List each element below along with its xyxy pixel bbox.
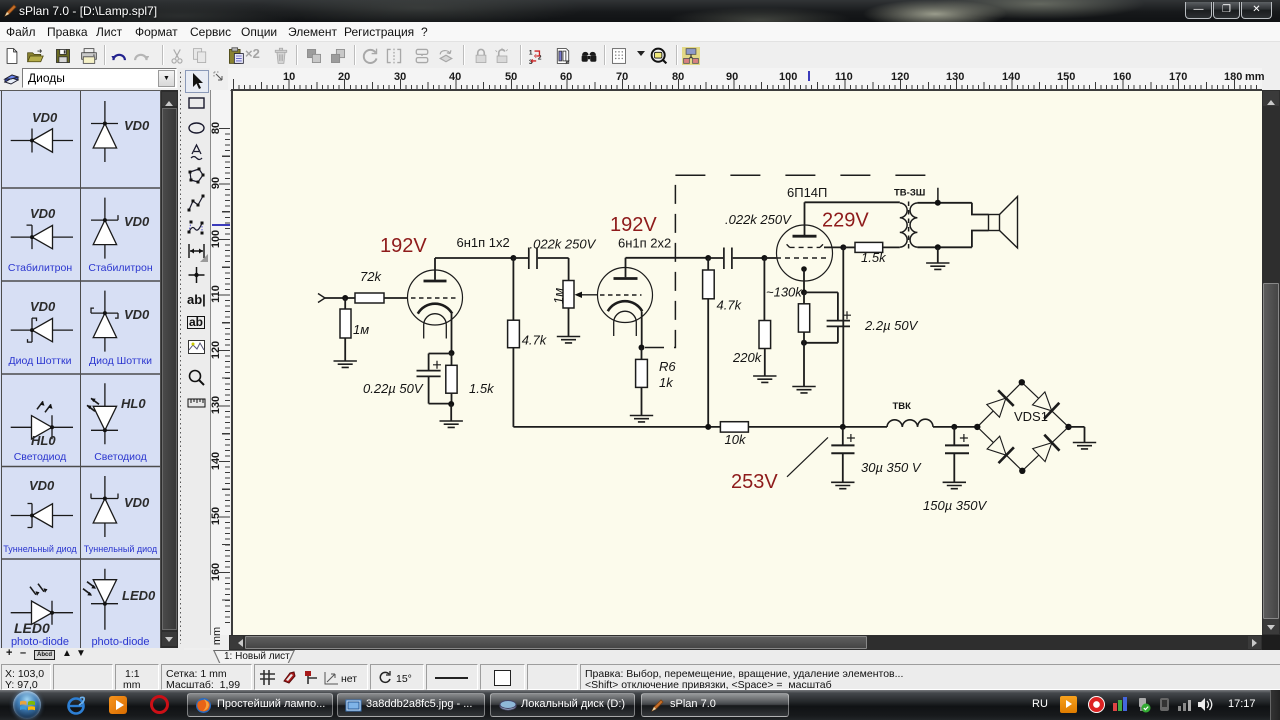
svg-text:4.7k: 4.7k: [522, 333, 548, 348]
r4 left: LED: [11, 401, 73, 439]
V3 screen grid: [787, 244, 823, 247]
svg-text:1: 1: [529, 49, 533, 56]
wires C1: [513, 257, 568, 259]
node secondary top: [935, 200, 941, 206]
resistor R6 1k: [636, 359, 648, 387]
wires to speaker: [972, 203, 989, 248]
node V1 cathode top: [449, 350, 455, 356]
svg-text:.022k 250V: .022k 250V: [530, 237, 597, 252]
ground R6: [630, 416, 653, 422]
node secondary bottom: [935, 244, 941, 250]
wire secondary top: [917, 202, 972, 204]
ground V3 cathode: [792, 387, 815, 393]
capacitor 0.22u 50V plates: [417, 371, 441, 377]
svg-text:10k: 10k: [725, 432, 747, 447]
wire 4.7k down to rail: [512, 348, 514, 427]
ground 150u: [943, 482, 966, 488]
ground secondary: [937, 247, 939, 263]
node bridge left: [974, 424, 980, 430]
V3 cathode dot: [801, 266, 807, 272]
polarity plus 2.2u: [843, 311, 851, 319]
shield dashed box: [645, 175, 675, 347]
svg-text:1.5k: 1.5k: [469, 381, 495, 396]
wire 2.2u bottom: [804, 326, 838, 342]
wire V1 anode to node A: [435, 257, 513, 259]
Opera: [150, 695, 169, 714]
node bridge top: [1019, 379, 1025, 385]
wire to cathode cap 2.2u: [804, 292, 838, 320]
input connector arrow: [318, 294, 325, 303]
node V1 cathode bottom: [448, 401, 454, 407]
transformer secondary: [910, 203, 917, 247]
task buttons: [187, 693, 333, 717]
capacitor C1 .022k 250V: [529, 248, 537, 270]
253V pointer line: [787, 437, 828, 476]
V2 grid (dashed): [600, 294, 642, 296]
node rail / 4.7k-2: [705, 424, 711, 430]
ground bridge: [1073, 443, 1096, 449]
r1 left: diode: [11, 129, 73, 153]
V3 anode: [793, 235, 817, 238]
bridge VDS1 frame: [977, 382, 1068, 471]
svg-text:229V: 229V: [822, 210, 869, 232]
V1 grid (dashed): [411, 297, 456, 299]
window chrome: [0, 0, 1280, 22]
svg-text:1м: 1м: [353, 322, 369, 337]
bridge diode lower-left: [987, 436, 1006, 455]
triode V2 6n1p (2x2) envelope: [598, 268, 653, 323]
resistor 1.5k screen: [843, 246, 855, 248]
node V3 cathode: [801, 289, 807, 295]
ground 220k: [753, 376, 776, 382]
V2 anode lead: [626, 258, 709, 278]
V1 anode lead: [434, 258, 436, 280]
triode V1 6n1p (1x2) envelope: [408, 270, 463, 325]
V1 cathode arc: [418, 304, 452, 314]
V2 heater: [614, 311, 637, 336]
labels: [32, 110, 57, 125]
wire node to R 1m: [344, 298, 346, 309]
pentode V3 6P14P envelope: [777, 225, 833, 281]
tray: [1032, 698, 1048, 710]
r2 right: zener up: [91, 198, 118, 259]
r1 right: diode up: [91, 101, 118, 162]
resistor 4.7k stage1: [512, 258, 514, 320]
speaker BA1: [989, 215, 1000, 231]
resistor 4.7k stage2: [707, 258, 709, 270]
svg-text:ТВ-ЗШ: ТВ-ЗШ: [894, 188, 925, 199]
V2 anode: [614, 277, 638, 280]
r5 left: tunnel: [11, 504, 73, 528]
node rail / 150u: [951, 424, 957, 430]
node C (V3 grid): [761, 255, 767, 261]
r6 right: photodiode down: [83, 569, 118, 630]
V3 anode lead to transformer: [805, 202, 900, 235]
resistor 1m: [340, 309, 351, 338]
capacitor 150u 350V: [953, 427, 955, 445]
B+ vertical wire: [842, 247, 844, 427]
wire 72k to V1 grid: [384, 297, 408, 299]
svg-text:0.22µ 50V: 0.22µ 50V: [363, 381, 424, 396]
WMP: [109, 696, 127, 714]
node input junction: [342, 295, 348, 301]
capacitor 30u 350V: [842, 427, 844, 445]
r3 left: schottky: [11, 318, 73, 342]
start orb: [13, 691, 41, 719]
resistor ~130k: [798, 304, 809, 332]
resistor 220k: [763, 258, 765, 321]
wires R6: [641, 348, 643, 416]
node bridge bottom: [1019, 468, 1025, 474]
pot wiper arrow: [580, 294, 598, 296]
svg-text:1.5k: 1.5k: [861, 250, 887, 265]
ground 30u: [831, 482, 854, 488]
resistor 1.5k cathode: [446, 365, 457, 393]
svg-text:6н1п 1x2: 6н1п 1x2: [457, 235, 510, 250]
V3 screen lead: [824, 246, 843, 248]
r5 right: tunnel up: [91, 476, 118, 537]
svg-text:30µ 350 V: 30µ 350 V: [861, 460, 922, 475]
transformer core: [908, 202, 910, 249]
ground pot: [557, 337, 580, 343]
resistor 72k: [355, 293, 384, 303]
node bridge right: [1065, 424, 1071, 430]
bridge diode upper-left: [987, 398, 1006, 417]
svg-text:150µ 350V: 150µ 350V: [923, 498, 987, 513]
V2 cathode lead: [641, 312, 643, 348]
wire pot to ground: [568, 308, 570, 337]
wire secondary bottom: [917, 246, 972, 248]
svg-text:2.2µ 50V: 2.2µ 50V: [864, 318, 919, 333]
wire cap bottom to node: [429, 376, 452, 403]
bridge diode lower-right: [1033, 443, 1052, 462]
V3 cathode lead: [803, 269, 805, 292]
node screen/1.5k: [840, 244, 846, 250]
r4 right: LED down: [87, 383, 118, 444]
potentiometer 1m body: [563, 281, 574, 309]
V1 cathode lead: [451, 314, 453, 353]
B+ rail: [513, 426, 977, 428]
wires C2: [708, 257, 764, 259]
polarity plus 30u: [847, 434, 855, 442]
svg-text:4.7k: 4.7k: [717, 298, 743, 313]
V1 heater: [424, 314, 447, 339]
bridge diode upper-right: [1033, 392, 1052, 411]
node B (V2 anode / C2 / R4.7k-2): [705, 255, 711, 261]
svg-text:72k: 72k: [360, 269, 382, 284]
svg-text:253V: 253V: [731, 471, 778, 493]
svg-text:ТВК: ТВК: [893, 401, 912, 412]
svg-text:192V: 192V: [380, 235, 427, 257]
V2 cathode arc: [608, 301, 642, 311]
svg-text:.022k 250V: .022k 250V: [725, 212, 792, 227]
r2 left: zener: [11, 225, 73, 249]
polarity plus 0.22u: [433, 361, 441, 369]
V1 anode: [424, 280, 447, 283]
svg-text:192V: 192V: [610, 214, 657, 236]
choke TVK: [887, 419, 933, 427]
wires 1.5k: [451, 353, 453, 404]
wire 1m to ground: [344, 338, 346, 361]
wire C1 to pot: [568, 258, 570, 281]
r6 left: photodiode: [11, 584, 73, 625]
svg-text:6н1п 2x2: 6н1п 2x2: [618, 236, 671, 251]
resistor 10k: [720, 422, 748, 432]
cell borders: [2, 91, 161, 649]
svg-text:1k: 1k: [659, 375, 674, 390]
ground V1 cathode: [440, 421, 463, 427]
svg-text:~130k: ~130k: [766, 285, 803, 300]
capacitor C2 .022k 250V: [724, 248, 732, 270]
wire input to R 72k: [325, 297, 355, 299]
node 130k bottom: [801, 340, 807, 346]
ground input: [334, 361, 357, 367]
node A (V1 anode / C1 / R 4.7k): [510, 255, 516, 261]
svg-text:6П14П: 6П14П: [787, 185, 827, 200]
node V2 cathode: [639, 345, 645, 351]
svg-text:VDS1: VDS1: [1014, 409, 1048, 424]
V3 control grid: [764, 257, 776, 259]
wire to ground V1 cathode: [450, 404, 452, 421]
polarity plus 150u: [960, 434, 968, 442]
transformer TV-3Sh primary: [900, 203, 907, 247]
r3 right: schottky up: [91, 291, 118, 352]
svg-text:1м: 1м: [551, 288, 566, 304]
wire bridge to ground: [1069, 427, 1085, 443]
capacitor 2.2u 50V plates: [827, 321, 850, 327]
node rail / 30u: [840, 424, 846, 430]
IE: [66, 695, 87, 716]
svg-text:R6: R6: [659, 359, 676, 374]
svg-text:220k: 220k: [732, 350, 763, 365]
wire to cathode cap: [429, 354, 452, 371]
